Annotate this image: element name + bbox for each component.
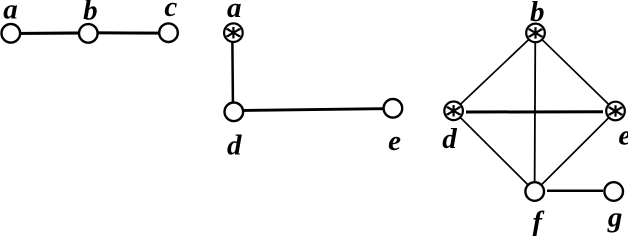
wire edge f-g bbox=[547, 190, 603, 193]
svg-text:d: d bbox=[442, 123, 457, 155]
svg-text:g: g bbox=[607, 201, 623, 233]
node a starred (middle graph) bbox=[224, 23, 243, 42]
node f (right graph) bbox=[525, 182, 544, 201]
svg-text:a: a bbox=[227, 0, 242, 24]
wire edge d-f bbox=[454, 111, 535, 192]
node c (left graph) bbox=[159, 23, 178, 42]
svg-text:b: b bbox=[530, 0, 545, 28]
node d (middle graph) bbox=[225, 103, 244, 122]
wire edge b-e bbox=[536, 33, 616, 111]
svg-text:e: e bbox=[618, 119, 628, 151]
wire edge d-e bbox=[234, 109, 393, 111]
wire edge a-b bbox=[11, 31, 88, 35]
svg-text:d: d bbox=[227, 130, 242, 162]
wire edge b-f bbox=[534, 33, 537, 191]
svg-text:b: b bbox=[83, 0, 98, 27]
node b (left graph) bbox=[79, 24, 98, 43]
wire edge b-c bbox=[88, 31, 169, 34]
node b starred (right graph) bbox=[526, 24, 545, 43]
node a (left graph) bbox=[2, 24, 21, 43]
node d starred (right graph) bbox=[444, 102, 463, 121]
svg-text:c: c bbox=[164, 0, 177, 23]
node g (right graph) bbox=[604, 182, 623, 201]
svg-text:a: a bbox=[3, 0, 18, 26]
wire edge e-f bbox=[535, 111, 616, 192]
wire edge d-e bbox=[466, 110, 603, 113]
wire edge a-d bbox=[231, 33, 234, 112]
node e (middle graph) bbox=[384, 99, 403, 118]
wire edge b-d bbox=[454, 33, 536, 111]
node e starred (right graph) bbox=[606, 102, 625, 121]
svg-text:e: e bbox=[388, 125, 401, 157]
